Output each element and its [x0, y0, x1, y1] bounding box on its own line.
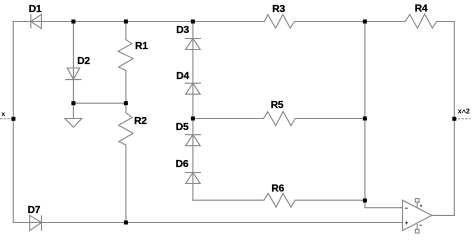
resistor R3 [264, 14, 294, 28]
wire middle left horizontal [73, 102, 126, 104]
node x^2 output stub [454, 118, 470, 120]
wire R6 left lead [193, 199, 264, 201]
wire op-amp output [432, 214, 455, 216]
resistor R1 [118, 40, 133, 71]
resistor R4 [405, 14, 436, 28]
svg-text:D2: D2 [77, 56, 90, 67]
svg-text:R4: R4 [415, 4, 428, 15]
resistor R6 [264, 193, 295, 207]
wire R2 bottom lead [125, 145, 127, 223]
wire top rail R3 to R4 [295, 21, 406, 23]
op-amp U1 negative supply pin [415, 224, 419, 233]
wire jog to op-amp inverting input [365, 201, 403, 208]
node junction D2 top [71, 20, 75, 24]
node junction R2 bottom [124, 221, 128, 225]
resistor R5 [264, 112, 296, 126]
wire D3 D4 D5 D6 column [192, 22, 194, 201]
svg-text:R2: R2 [134, 116, 147, 127]
wire top rail R4 to corner [437, 21, 455, 23]
node junction R6 summing [363, 199, 367, 203]
node x input junction [11, 117, 15, 121]
wire bottom rail [13, 222, 402, 224]
svg-text:D4: D4 [176, 71, 189, 82]
diode D2 [65, 68, 81, 80]
svg-text:R3: R3 [272, 4, 285, 15]
diode D7 [30, 215, 42, 230]
node x input stub [0, 118, 13, 120]
op-amp U1 negative supply sign [420, 224, 422, 226]
wire R1 to R2 lead [125, 71, 127, 113]
diode D3 [185, 39, 201, 50]
diode D6 [185, 173, 201, 184]
wire D2 column [72, 22, 74, 119]
wire R5 left lead [193, 118, 264, 120]
svg-text:R6: R6 [271, 183, 284, 194]
node junction R1 top [124, 20, 128, 24]
op-amp U1 positive supply sign [420, 205, 422, 207]
svg-text:x: x [2, 111, 6, 118]
wire top rail to R3 [13, 21, 264, 23]
svg-text:D7: D7 [28, 205, 41, 216]
svg-text:D1: D1 [29, 4, 42, 15]
svg-text:D6: D6 [176, 159, 189, 170]
wire R6 right lead [295, 199, 365, 201]
svg-text:R1: R1 [135, 41, 148, 52]
wire left rail vertical [12, 22, 14, 223]
node junction R1 R2 [124, 101, 128, 105]
op-amp U1 positive supply pin [415, 199, 419, 208]
wire right rail vertical [453, 22, 455, 216]
wire summing node vertical [364, 22, 366, 201]
node x^2 output junction [452, 117, 456, 121]
svg-text:D5: D5 [176, 122, 189, 133]
ground [65, 119, 82, 128]
node junction D4 D5 [191, 117, 195, 121]
wire R1 top lead [125, 22, 127, 40]
svg-text:R5: R5 [271, 100, 284, 111]
diode D1 [31, 14, 42, 29]
resistor R2 [119, 113, 133, 145]
diode D5 [185, 135, 201, 146]
node junction summing top [363, 20, 367, 24]
node junction R5 summing [363, 117, 367, 121]
op-amp U1 inverting input sign [405, 207, 408, 209]
op-amp U1 non-inverting input sign [405, 221, 408, 224]
node junction D2 bottom [71, 101, 75, 105]
op-amp U1 [403, 200, 432, 230]
wire R5 right lead [295, 118, 365, 120]
svg-text:D3: D3 [176, 25, 189, 36]
node junction D3 top [191, 20, 195, 24]
diode D4 [185, 83, 201, 94]
svg-text:x^2: x^2 [458, 107, 470, 117]
